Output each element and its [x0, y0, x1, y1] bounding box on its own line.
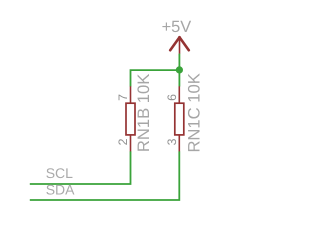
supply symbol +5V arrow	[170, 37, 189, 54]
svg-text:+5V: +5V	[162, 18, 192, 36]
wire SDA	[30, 151, 180, 200]
wire junction to left branch	[131, 70, 180, 86]
svg-text:3: 3	[165, 138, 179, 145]
wire SCL	[30, 151, 131, 184]
wire +5V stem to junction	[178, 54, 180, 87]
svg-text:2: 2	[116, 138, 130, 145]
svg-text:RN1B 10K: RN1B 10K	[134, 74, 153, 152]
resistor RN1B pin 2 wire	[130, 136, 132, 152]
pin number 2	[116, 138, 130, 145]
svg-text:7: 7	[116, 94, 130, 101]
resistor RN1B body	[126, 103, 135, 135]
svg-text:6: 6	[165, 94, 179, 101]
junction dot	[176, 66, 183, 73]
resistor RN1C pin 3 wire	[178, 136, 180, 152]
resistor RN1B pin 7 wire	[130, 86, 132, 103]
svg-text:SCL: SCL	[46, 165, 73, 181]
label RN1C 10K	[184, 73, 203, 152]
pin number 3	[165, 138, 179, 145]
resistor RN1C body	[175, 103, 184, 135]
resistor RN1C pin 6 wire	[178, 86, 180, 103]
svg-text:SDA: SDA	[46, 182, 75, 198]
label RN1B 10K	[134, 74, 153, 152]
pin number 6	[165, 94, 179, 101]
svg-text:RN1C 10K: RN1C 10K	[184, 73, 203, 152]
pin number 7	[116, 94, 130, 101]
